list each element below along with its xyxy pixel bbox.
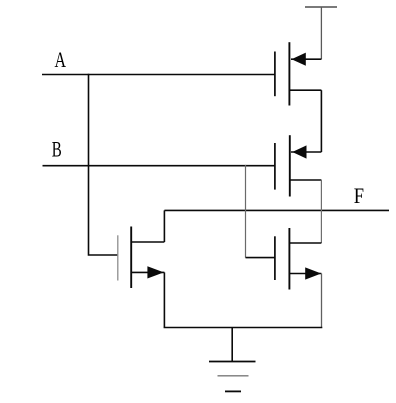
svg-text:F: F	[354, 183, 364, 208]
svg-text:B: B	[52, 137, 62, 162]
svg-text:A: A	[55, 47, 67, 72]
